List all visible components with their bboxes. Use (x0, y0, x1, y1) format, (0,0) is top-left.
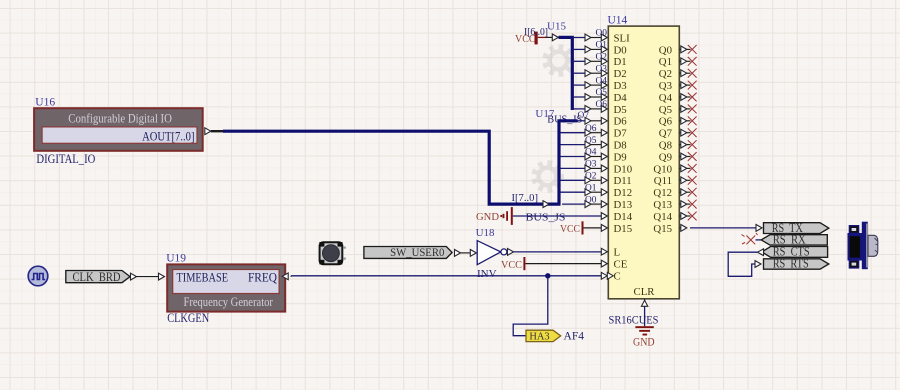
pin Q0 stub with no-ERC cross (679, 45, 696, 54)
svg-text:TIMEBASE: TIMEBASE (177, 269, 229, 284)
pin Q2 stub with no-ERC cross (679, 69, 696, 78)
bus I[6..0] vertical (559, 37, 573, 110)
ground symbol GND below U14 (633, 326, 655, 348)
wire O2 from bus I[6..0] to pin D1 (572, 58, 607, 65)
svg-text:U14: U14 (608, 15, 628, 27)
port RS_RTS (764, 256, 829, 270)
pin Q4 stub with no-ERC cross (679, 93, 696, 102)
svg-text:O6: O6 (585, 124, 597, 134)
wire U18 output to pin L (508, 249, 602, 256)
svg-text:HA3: HA3 (529, 332, 549, 343)
svg-text:O4: O4 (596, 76, 608, 86)
pin Q10 stub with no-ERC cross (679, 164, 696, 173)
svg-text:D8: D8 (614, 140, 627, 152)
svg-text:SLI: SLI (614, 32, 631, 44)
svg-text:U18: U18 (476, 227, 495, 239)
wire O1 from bus I[6..0] to pin D0 (572, 46, 607, 53)
push button image (319, 241, 346, 265)
wire O6 from bus BUS_JS to pin D7 (561, 129, 608, 136)
pin L entry arrow (601, 248, 607, 255)
power port VCC at D15 (560, 221, 584, 235)
wire GND to pin D14 (513, 213, 608, 220)
svg-text:FREQ: FREQ (248, 269, 278, 284)
IC U14 body (608, 26, 679, 299)
svg-text:C: C (614, 270, 621, 282)
svg-text:I[7..0]: I[7..0] (512, 193, 539, 204)
svg-text:CE: CE (614, 259, 628, 271)
DB9 connector image (848, 222, 878, 270)
svg-text:O3: O3 (585, 160, 597, 170)
svg-text:D4: D4 (614, 92, 628, 104)
wire CLK_BRD to U19 (131, 273, 165, 280)
svg-text:I[6..0]: I[6..0] (524, 27, 548, 38)
power port VCC at U15 (515, 32, 546, 45)
svg-text:O1: O1 (585, 183, 597, 193)
svg-text:D3: D3 (614, 80, 627, 92)
svg-text:Q6: Q6 (659, 116, 673, 128)
decor gear icon near U15 (542, 44, 575, 77)
svg-text:Q13: Q13 (653, 199, 672, 211)
svg-text:CLR: CLR (634, 286, 656, 298)
pin Q9 stub with no-ERC cross (679, 152, 696, 161)
wire O4 from bus BUS_JS to pin D9 (561, 153, 608, 160)
junction on FREQ wire (545, 273, 550, 278)
svg-text:Q0: Q0 (659, 44, 672, 56)
svg-text:O5: O5 (585, 136, 597, 146)
svg-text:SR16CUES: SR16CUES (609, 314, 659, 327)
pin Q3 stub with no-ERC cross (679, 81, 696, 90)
svg-text:Q15: Q15 (653, 223, 672, 235)
wire O4 from bus I[6..0] to pin D3 (572, 82, 607, 89)
svg-text:VCC: VCC (501, 259, 522, 271)
power port HA3 (526, 330, 561, 342)
svg-text:AOUT[7..0]: AOUT[7..0] (142, 129, 194, 143)
inverter U18 (477, 241, 507, 265)
svg-text:GND: GND (476, 211, 499, 223)
svg-text:O0: O0 (585, 195, 597, 205)
svg-text:Configurable Digital IO: Configurable Digital IO (68, 111, 172, 125)
svg-text:D12: D12 (614, 187, 633, 199)
pin arrow of U17 on bus (543, 201, 549, 208)
bus BUS_JS vertical (559, 121, 578, 204)
wire O7 from bus BUS_JS to pin D6 (578, 117, 608, 124)
pin FREQ of U19 (282, 273, 291, 280)
sheet symbol U16 Configurable Digital IO (34, 108, 203, 151)
svg-text:Q4: Q4 (659, 92, 673, 104)
svg-text:O3: O3 (596, 64, 608, 74)
port SW_USER0 (364, 245, 452, 259)
svg-text:CLKGEN: CLKGEN (167, 311, 209, 325)
svg-text:O1: O1 (596, 41, 608, 51)
wire O5 from bus I[6..0] to pin D4 (572, 94, 607, 101)
svg-text:Q5: Q5 (659, 104, 672, 116)
no-ERC cross at RS_RX (742, 233, 762, 244)
svg-text:O5: O5 (596, 88, 608, 98)
svg-text:D7: D7 (614, 128, 628, 140)
pin Q15 stub (679, 225, 687, 232)
wire O2 from bus BUS_JS to pin D11 (561, 177, 608, 184)
svg-text:Q9: Q9 (659, 151, 672, 163)
port RS_TX (764, 221, 829, 235)
svg-text:O4: O4 (585, 148, 597, 158)
pin of U15 (546, 34, 558, 41)
power port VCC at CE (501, 257, 525, 271)
svg-text:U16: U16 (35, 97, 55, 109)
svg-text:D9: D9 (614, 151, 627, 163)
svg-text:Frequency Generator: Frequency Generator (183, 295, 273, 309)
wire FREQ to pin C (291, 272, 613, 279)
svg-text:D2: D2 (614, 68, 627, 80)
wire O0 from bus I[6..0] to pin SLI (572, 34, 607, 41)
wire O1 from bus BUS_JS to pin D12 (561, 189, 608, 196)
svg-text:Q2: Q2 (659, 68, 672, 80)
svg-text:GND: GND (633, 335, 655, 349)
pin Q1 stub with no-ERC cross (679, 57, 696, 66)
wire SW_USER0 to U18 (455, 250, 477, 257)
pin Q7 stub with no-ERC cross (679, 128, 696, 137)
port CLK_BRD (66, 270, 130, 284)
svg-text:U15: U15 (547, 20, 566, 32)
svg-text:BUS_JS: BUS_JS (526, 211, 566, 223)
pin Q11 stub with no-ERC cross (679, 176, 696, 185)
pin CLR wire (641, 299, 647, 326)
svg-text:L: L (614, 247, 621, 259)
pin Q6 stub with no-ERC cross (679, 116, 696, 125)
svg-text:Q8: Q8 (659, 140, 672, 152)
pin Q12 stub with no-ERC cross (679, 188, 696, 197)
clock waveform image (28, 266, 48, 286)
svg-text:RS_RTS: RS_RTS (773, 256, 809, 270)
svg-text:D11: D11 (614, 175, 632, 187)
wire Q15 to RS_TX (690, 225, 762, 232)
wire RS_CTS loop to RS_RTS (728, 249, 763, 276)
svg-text:D14: D14 (614, 211, 633, 223)
wire O3 from bus I[6..0] to pin D2 (572, 70, 607, 77)
bus AOUT[7..0] from U16 to junction with BUS_JS (223, 131, 561, 204)
svg-text:O7: O7 (578, 111, 590, 121)
svg-text:O6: O6 (596, 100, 608, 110)
svg-text:O0: O0 (596, 29, 608, 39)
svg-text:DIGITAL_IO: DIGITAL_IO (36, 152, 95, 166)
pin Q14 stub with no-ERC cross (679, 212, 696, 221)
svg-text:CLK_BRD: CLK_BRD (73, 270, 121, 284)
svg-text:Q10: Q10 (653, 163, 672, 175)
svg-text:D1: D1 (614, 56, 627, 68)
svg-text:D10: D10 (614, 163, 633, 175)
svg-text:D15: D15 (614, 223, 633, 235)
svg-text:Q14: Q14 (653, 211, 672, 223)
pin Q13 stub with no-ERC cross (679, 200, 696, 209)
svg-text:Q11: Q11 (654, 175, 672, 187)
port RS_CTS (762, 245, 828, 259)
svg-text:Q3: Q3 (659, 80, 672, 92)
wire VCC to pin D15 (584, 225, 608, 232)
svg-text:D6: D6 (614, 116, 628, 128)
svg-text:SW_USER0: SW_USER0 (390, 245, 444, 259)
pin Q8 stub with no-ERC cross (679, 140, 696, 149)
decor gear icon near U17 (531, 160, 564, 193)
svg-text:O2: O2 (596, 53, 608, 63)
wire O0 from bus BUS_JS to pin D13 (562, 201, 607, 208)
svg-text:Q1: Q1 (659, 56, 672, 68)
svg-text:D0: D0 (614, 44, 627, 56)
svg-text:Q7: Q7 (659, 128, 673, 140)
pin AOUT[7..0] of U16 (205, 128, 224, 135)
svg-text:AF4: AF4 (564, 329, 585, 342)
svg-text:O2: O2 (585, 172, 597, 182)
svg-text:U19: U19 (166, 252, 186, 264)
wire VCC to pin CE (525, 263, 601, 265)
power port GND at D14 (476, 207, 513, 225)
svg-text:D13: D13 (614, 199, 633, 211)
wire O5 from bus BUS_JS to pin D8 (561, 141, 608, 148)
svg-text:Q12: Q12 (653, 187, 672, 199)
svg-text:INV: INV (477, 268, 497, 280)
svg-text:D5: D5 (614, 104, 627, 116)
wire O6 from bus I[6..0] to pin D5 (572, 106, 607, 113)
pin CE entry arrow (601, 260, 607, 267)
port RS_RX (761, 232, 827, 246)
svg-text:VCC: VCC (560, 223, 580, 235)
sheet symbol U19 Frequency Generator (167, 264, 285, 311)
wire O3 from bus BUS_JS to pin D10 (561, 165, 608, 172)
pin Q5 stub with no-ERC cross (679, 105, 696, 114)
wire junction to HA3 (513, 276, 548, 336)
